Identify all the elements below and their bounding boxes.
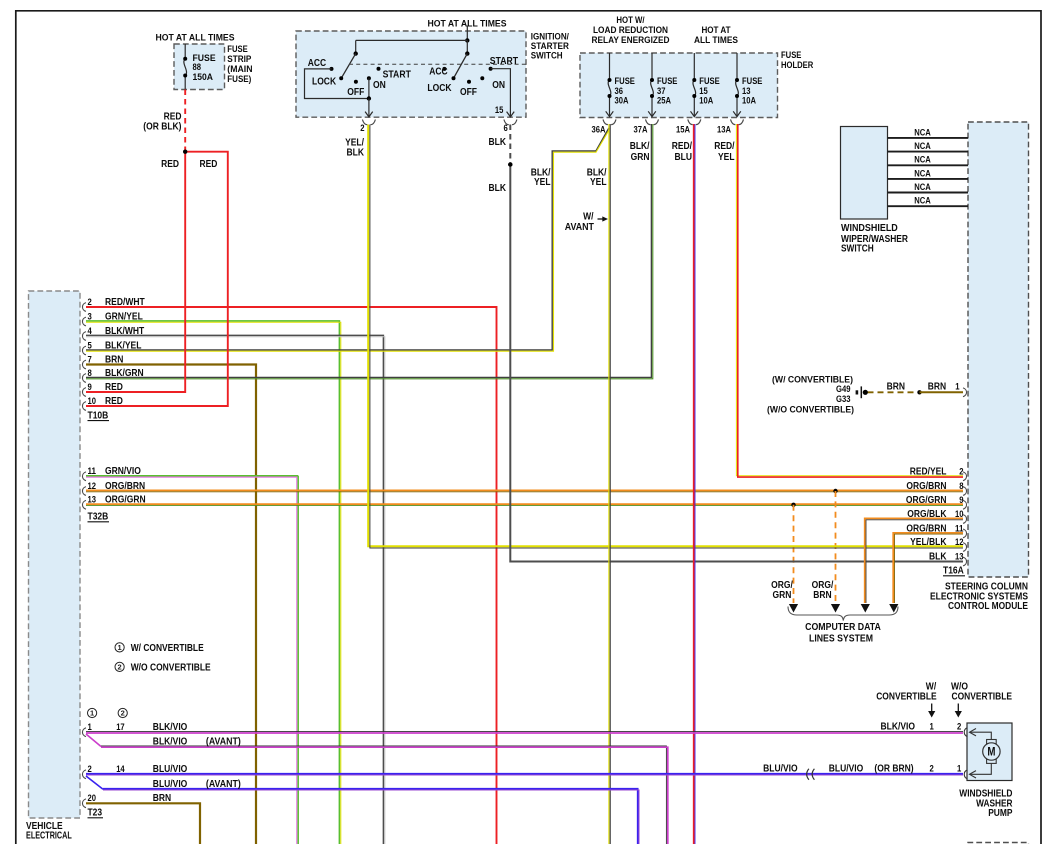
svg-text:WINDSHIELD: WINDSHIELD	[841, 223, 898, 234]
svg-text:ORG/GRN: ORG/GRN	[906, 495, 947, 506]
svg-text:NCA: NCA	[914, 155, 931, 165]
svg-text:(MAIN: (MAIN	[227, 64, 252, 74]
svg-text:37: 37	[657, 86, 666, 96]
svg-text:RED/WHT: RED/WHT	[105, 297, 145, 308]
svg-text:RED: RED	[161, 159, 179, 170]
svg-text:G49: G49	[836, 384, 851, 394]
svg-text:AVANT: AVANT	[565, 222, 594, 233]
svg-text:HOT AT ALL TIMES: HOT AT ALL TIMES	[156, 33, 235, 43]
svg-text:BLK: BLK	[347, 148, 365, 159]
svg-text:NCA: NCA	[914, 127, 931, 137]
svg-text:LOAD REDUCTION: LOAD REDUCTION	[593, 25, 668, 35]
svg-text:15A: 15A	[676, 124, 690, 134]
svg-text:RED: RED	[105, 396, 123, 407]
svg-text:FUSE: FUSE	[615, 76, 635, 86]
svg-text:LOCK: LOCK	[427, 83, 452, 94]
svg-text:2: 2	[118, 663, 122, 672]
svg-text:20: 20	[88, 793, 97, 803]
svg-text:YEL: YEL	[718, 152, 735, 163]
svg-text:1: 1	[957, 764, 961, 774]
svg-text:LINES SYSTEM: LINES SYSTEM	[809, 634, 873, 645]
svg-text:150A: 150A	[193, 72, 214, 82]
svg-text:1: 1	[88, 722, 92, 732]
svg-text:2: 2	[930, 764, 934, 774]
svg-text:2: 2	[121, 709, 125, 718]
svg-text:1: 1	[955, 382, 959, 392]
svg-text:4: 4	[88, 326, 92, 336]
svg-text:START: START	[383, 69, 411, 80]
svg-text:HOT AT: HOT AT	[701, 25, 730, 35]
svg-text:8: 8	[959, 481, 963, 491]
svg-text:BLU/VIO: BLU/VIO	[153, 764, 188, 775]
svg-text:14: 14	[116, 764, 125, 774]
svg-text:STRIP: STRIP	[227, 54, 251, 64]
svg-text:ORG/BRN: ORG/BRN	[105, 481, 145, 492]
svg-text:CONTROL MODULE: CONTROL MODULE	[948, 601, 1028, 612]
svg-text:W/: W/	[583, 211, 594, 222]
svg-text:ORG/BRN: ORG/BRN	[906, 481, 946, 492]
svg-text:3: 3	[88, 311, 92, 321]
svg-text:10: 10	[955, 509, 964, 519]
svg-text:BLK/: BLK/	[630, 141, 650, 152]
svg-text:SWITCH: SWITCH	[841, 244, 874, 255]
svg-text:1: 1	[118, 643, 122, 652]
svg-text:11: 11	[88, 466, 97, 476]
svg-text:HOT AT ALL TIMES: HOT AT ALL TIMES	[428, 19, 507, 29]
svg-text:BLK/VIO: BLK/VIO	[153, 722, 188, 733]
svg-text:2: 2	[88, 297, 92, 307]
svg-text:FUSE: FUSE	[657, 76, 677, 86]
svg-text:G33: G33	[836, 394, 851, 404]
svg-text:NCA: NCA	[914, 168, 931, 178]
svg-text:2: 2	[957, 722, 961, 732]
svg-text:15: 15	[699, 86, 708, 96]
svg-text:T16A: T16A	[943, 566, 964, 577]
svg-text:HOT W/: HOT W/	[616, 15, 645, 25]
svg-text:NCA: NCA	[914, 196, 931, 206]
svg-text:CONVERTIBLE: CONVERTIBLE	[876, 692, 937, 703]
svg-text:BLK: BLK	[489, 183, 507, 194]
svg-text:FUSE: FUSE	[742, 76, 762, 86]
svg-text:M: M	[987, 747, 995, 759]
svg-text:ON: ON	[492, 80, 505, 91]
svg-text:RED: RED	[105, 382, 123, 393]
svg-text:BRN: BRN	[813, 590, 831, 601]
svg-text:BRN: BRN	[928, 382, 946, 393]
svg-text:NCA: NCA	[914, 182, 931, 192]
svg-text:(AVANT): (AVANT)	[206, 736, 241, 747]
svg-text:OFF: OFF	[347, 87, 364, 98]
svg-text:LOCK: LOCK	[312, 76, 337, 87]
svg-text:25A: 25A	[657, 95, 671, 105]
svg-text:PUMP: PUMP	[988, 808, 1013, 819]
svg-text:CONVERTIBLE: CONVERTIBLE	[952, 692, 1013, 703]
svg-text:BLK/YEL: BLK/YEL	[105, 340, 141, 351]
svg-text:T10B: T10B	[88, 410, 109, 421]
svg-text:1: 1	[90, 709, 94, 718]
svg-text:13: 13	[742, 86, 751, 96]
svg-text:W/ CONVERTIBLE: W/ CONVERTIBLE	[131, 643, 204, 654]
svg-text:11: 11	[955, 524, 964, 534]
svg-text:30A: 30A	[615, 95, 629, 105]
svg-text:6: 6	[504, 123, 508, 133]
svg-text:9: 9	[959, 495, 963, 505]
svg-text:36A: 36A	[592, 124, 606, 134]
svg-text:2: 2	[88, 764, 92, 774]
svg-text:FUSE: FUSE	[781, 50, 801, 60]
svg-text:YEL/BLK: YEL/BLK	[910, 537, 947, 548]
svg-text:COMPUTER DATA: COMPUTER DATA	[805, 622, 881, 633]
svg-text:17: 17	[116, 722, 125, 732]
svg-text:SWITCH: SWITCH	[531, 51, 563, 62]
svg-text:BRN: BRN	[887, 382, 905, 393]
svg-text:FUSE: FUSE	[227, 44, 248, 54]
svg-text:RED: RED	[200, 159, 218, 170]
svg-text:START: START	[490, 56, 518, 67]
svg-text:(OR BLK): (OR BLK)	[143, 122, 181, 133]
svg-text:(OR BRN): (OR BRN)	[874, 764, 913, 775]
svg-text:NCA: NCA	[914, 141, 931, 151]
svg-text:12: 12	[955, 537, 964, 547]
svg-text:10: 10	[88, 396, 97, 406]
svg-text:BLK/VIO: BLK/VIO	[153, 736, 188, 747]
svg-text:2: 2	[360, 123, 364, 133]
svg-text:FUSE): FUSE)	[227, 74, 251, 84]
svg-text:HOLDER: HOLDER	[781, 60, 814, 70]
svg-text:ORG/GRN: ORG/GRN	[105, 495, 146, 506]
svg-text:GRN/YEL: GRN/YEL	[105, 311, 143, 322]
svg-text:2: 2	[959, 467, 963, 477]
svg-text:FUSE: FUSE	[699, 76, 719, 86]
svg-text:T23: T23	[88, 808, 103, 819]
svg-text:GRN: GRN	[773, 590, 792, 601]
svg-text:RED/: RED/	[714, 141, 734, 152]
svg-text:BLK: BLK	[929, 552, 947, 563]
svg-text:15: 15	[495, 105, 504, 115]
svg-text:ORG/BLK: ORG/BLK	[907, 509, 947, 520]
svg-text:(AVANT): (AVANT)	[206, 779, 241, 790]
svg-text:13: 13	[88, 495, 97, 505]
svg-text:9: 9	[88, 382, 92, 392]
svg-text:88: 88	[193, 62, 202, 72]
svg-text:ORG/BRN: ORG/BRN	[906, 524, 946, 535]
svg-text:BLU: BLU	[675, 152, 693, 163]
svg-text:ACC: ACC	[308, 58, 326, 69]
svg-text:RED/: RED/	[672, 141, 692, 152]
svg-text:10A: 10A	[742, 95, 756, 105]
svg-text:ELECTRICAL: ELECTRICAL	[26, 831, 72, 842]
svg-text:YEL: YEL	[534, 177, 551, 188]
svg-text:RELAY ENERGIZED: RELAY ENERGIZED	[592, 35, 670, 45]
svg-text:13: 13	[955, 552, 964, 562]
svg-text:5: 5	[88, 340, 92, 350]
svg-text:7: 7	[88, 354, 92, 364]
svg-text:BLU/VIO: BLU/VIO	[829, 764, 864, 775]
svg-text:YEL: YEL	[590, 177, 607, 188]
svg-text:13A: 13A	[717, 124, 731, 134]
svg-text:BLU/VIO: BLU/VIO	[763, 764, 798, 775]
svg-text:12: 12	[88, 481, 97, 491]
svg-text:GRN/VIO: GRN/VIO	[105, 466, 141, 477]
svg-text:8: 8	[88, 368, 92, 378]
svg-text:BLU/VIO: BLU/VIO	[153, 779, 188, 790]
svg-text:GRN: GRN	[631, 152, 650, 163]
svg-text:1: 1	[930, 722, 934, 732]
svg-text:T32B: T32B	[88, 512, 109, 523]
svg-text:BLK: BLK	[489, 137, 507, 148]
svg-text:37A: 37A	[634, 124, 648, 134]
svg-text:ACC: ACC	[429, 67, 447, 78]
svg-text:BRN: BRN	[105, 354, 123, 365]
svg-text:(W/O CONVERTIBLE): (W/O CONVERTIBLE)	[767, 404, 854, 415]
svg-text:BLK/VIO: BLK/VIO	[881, 722, 916, 733]
svg-text:BLK/GRN: BLK/GRN	[105, 368, 144, 379]
svg-text:W/O CONVERTIBLE: W/O CONVERTIBLE	[131, 662, 211, 673]
svg-text:10A: 10A	[699, 95, 713, 105]
svg-text:ON: ON	[373, 80, 386, 91]
svg-text:36: 36	[615, 86, 624, 96]
svg-text:BRN: BRN	[153, 793, 171, 804]
svg-text:RED/YEL: RED/YEL	[910, 467, 947, 478]
svg-text:BLK/WHT: BLK/WHT	[105, 326, 144, 337]
svg-text:OFF: OFF	[460, 87, 477, 98]
svg-text:ALL TIMES: ALL TIMES	[694, 35, 738, 45]
